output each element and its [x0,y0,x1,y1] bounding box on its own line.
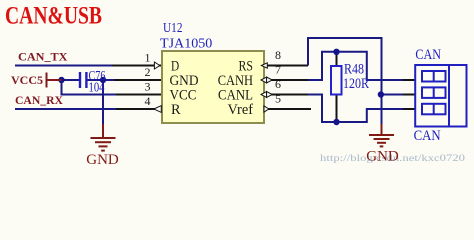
svg-text:Vref: Vref [228,102,254,118]
svg-text:3: 3 [145,80,151,94]
svg-text:1: 1 [145,51,151,65]
svg-text:R: R [171,102,181,118]
svg-text:GND: GND [86,152,119,168]
svg-text:GND: GND [366,149,399,165]
svg-text:2: 2 [145,65,151,79]
svg-text:U12: U12 [163,21,183,36]
svg-text:VCC5: VCC5 [11,73,43,87]
svg-text:120R: 120R [343,76,369,92]
svg-text:CAN: CAN [414,128,441,144]
svg-text:TJA1050: TJA1050 [160,37,212,52]
svg-text:CAN_RX: CAN_RX [15,93,63,107]
svg-text:104: 104 [89,81,105,96]
svg-text:4: 4 [145,94,151,108]
svg-text:CAN: CAN [415,47,441,63]
svg-text:CAN&USB: CAN&USB [5,2,102,29]
svg-text:8: 8 [275,48,281,62]
svg-text:CAN_TX: CAN_TX [18,50,68,64]
